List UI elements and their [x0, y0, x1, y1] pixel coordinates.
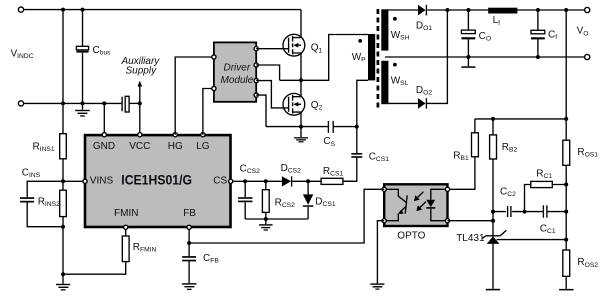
- wire CS row: [233, 180, 357, 182]
- node pin driver right4: [254, 93, 258, 97]
- node junction CS CCS1: [355, 125, 359, 129]
- wire bottom input rail: [24, 102, 122, 104]
- node output terminal plus: [585, 7, 590, 12]
- ground below Q2: [294, 127, 308, 143]
- wire DO2 cathode up: [426, 10, 447, 103]
- node junction ground left: [61, 272, 65, 276]
- node pin FMIN: [124, 225, 128, 229]
- wire WP bottom to node: [357, 80, 368, 153]
- diode DCS1: [303, 181, 313, 219]
- svg-text:GND: GND: [93, 141, 115, 152]
- node pin CS: [229, 179, 233, 183]
- transformer core: [377, 9, 380, 111]
- capacitor CS resonant: [328, 121, 333, 133]
- wire ground rail Q2 source: [266, 126, 357, 128]
- ground below Cbus: [75, 103, 90, 116]
- node junction switch node: [299, 78, 303, 82]
- svg-text:FMIN: FMIN: [114, 208, 138, 219]
- node pin VCC: [138, 133, 142, 137]
- LED opto diode: [426, 189, 445, 220]
- node pin opto top-left: [382, 187, 386, 191]
- ground below opto: [370, 283, 384, 289]
- node junction FB: [187, 241, 191, 245]
- wire TL431 ref: [497, 239, 567, 241]
- wire opto light arrows: [414, 192, 426, 211]
- wire driver pin4 to ground rail: [256, 95, 266, 127]
- resistor RINS1: [60, 10, 67, 182]
- wire sense feedback horizontal: [475, 118, 566, 120]
- transformer primary WP: [368, 34, 375, 80]
- svg-text:ICE1HS01/G: ICE1HS01/G: [121, 173, 192, 188]
- wire GND pin line: [103, 103, 105, 133]
- node junction RC1 CC1 left: [523, 210, 527, 214]
- node junction sense rail y119: [564, 117, 568, 121]
- node junction ref rail: [564, 238, 568, 242]
- resistor RCS2: [262, 181, 269, 219]
- node output terminal minus: [585, 54, 590, 59]
- svg-text:LG: LG: [196, 141, 210, 152]
- node pin GND: [102, 133, 106, 137]
- node junction aux: [138, 101, 142, 105]
- node pin driver right3: [254, 79, 258, 83]
- node input terminal bottom: [18, 101, 23, 106]
- wire HG net: [175, 57, 214, 135]
- capacitor CVCC aux series: [122, 96, 140, 112]
- node junction Cf bottom: [536, 55, 540, 59]
- ground left: [56, 274, 70, 290]
- resistor ROS1: [563, 140, 570, 165]
- wire mid output rail: [385, 56, 585, 58]
- capacitor CINS: [20, 181, 63, 226]
- wire top output rail: [388, 9, 585, 11]
- svg-text:HG: HG: [168, 141, 183, 152]
- node pin opto top-right: [445, 187, 449, 191]
- node pin LG: [201, 133, 205, 137]
- node junction sense rail top: [564, 8, 568, 12]
- node pin opto bottom-left: [382, 219, 386, 223]
- node junction RB2 top: [491, 117, 495, 121]
- wire opto cathode ground: [377, 221, 384, 284]
- node junction CCS2: [243, 179, 247, 183]
- wire top input rail: [24, 9, 301, 11]
- ground below RCS2: [259, 219, 273, 231]
- diode DO2: [418, 98, 426, 109]
- node junction bottom rail x82.5: [81, 101, 85, 105]
- svg-text:VINS: VINS: [90, 176, 114, 187]
- node junction bottom rail x104.3 GND: [102, 101, 106, 105]
- ground below ROS2: [559, 289, 573, 291]
- capacitor CCS1: [343, 153, 362, 181]
- capacitor CCS2: [238, 181, 253, 219]
- transformer secondary WSH: [381, 9, 388, 50]
- node junction DO2 top: [445, 8, 449, 12]
- opto-coupler box: [384, 184, 447, 226]
- capacitor CC1: [525, 205, 567, 218]
- node junction CC1 right: [564, 210, 568, 214]
- resistor RINS2: [60, 181, 67, 226]
- node pin driver left1: [212, 55, 216, 59]
- resistor RB2: [490, 119, 497, 236]
- node junction CC2: [491, 210, 495, 214]
- node pin HG: [173, 133, 177, 137]
- wire FB stem: [188, 229, 190, 243]
- capacitor Cbus: [76, 10, 88, 104]
- op-amp U1 ICE1HS01/G box: [85, 135, 231, 227]
- transistor opto phototransistor: [386, 189, 407, 220]
- transistor Q1: [283, 10, 305, 81]
- transistor Q2: [283, 80, 305, 126]
- node junction Q2 source: [299, 125, 303, 129]
- wire Q1 gate lead: [256, 48, 288, 50]
- svg-text:VCC: VCC: [129, 141, 150, 152]
- wire arrow to auxiliary supply: [138, 81, 143, 104]
- svg-text:FB: FB: [183, 208, 196, 219]
- wire FB net to opto: [189, 189, 384, 243]
- wire VINS to pin: [63, 180, 84, 182]
- resistor ROS2: [563, 250, 570, 276]
- node pin opto bottom-right: [445, 219, 449, 223]
- op-amp U2 Driver Module box: [214, 42, 256, 101]
- wire opto emitter to TL431: [448, 220, 494, 222]
- node pin driver right1: [254, 47, 258, 51]
- resistor RC1: [525, 181, 567, 211]
- ground below CO: [461, 57, 475, 68]
- node junction RC1 right: [564, 183, 568, 187]
- wire RFMIN return: [63, 262, 126, 275]
- node junction CS ground: [264, 217, 268, 221]
- wire WSL to DO2: [388, 102, 419, 104]
- diode DO1: [418, 5, 426, 16]
- wire LG net: [203, 89, 214, 135]
- node WSL polarity dot: [393, 63, 397, 67]
- node junction VINS: [61, 179, 65, 183]
- wire switch node to WP top: [280, 35, 368, 81]
- wire CS ground rail: [245, 218, 308, 220]
- node junction top rail x63: [61, 8, 65, 12]
- capacitor CO: [461, 10, 475, 57]
- node pin FB: [187, 225, 191, 229]
- ground below TL431: [486, 289, 500, 291]
- diode DCS2: [282, 176, 292, 186]
- node junction RINS2 bottom: [61, 225, 65, 229]
- node junction RCS2: [264, 179, 268, 183]
- wire RINS2 bottom to ground: [62, 227, 64, 275]
- node junction DCS1: [306, 179, 310, 183]
- node junction bottom rail x63: [61, 101, 65, 105]
- svg-text:Module: Module: [221, 75, 254, 86]
- ground below CFB: [182, 283, 197, 290]
- node pin VINS: [83, 179, 87, 183]
- svg-text:OPTO: OPTO: [397, 230, 425, 241]
- transformer secondary WSL: [381, 61, 388, 104]
- svg-text:Supply: Supply: [126, 66, 158, 77]
- capacitor CFB: [182, 243, 196, 283]
- node pin driver left2: [212, 86, 216, 90]
- node junction Cf top: [536, 8, 540, 12]
- wire driver pin2 to switch node: [256, 65, 279, 80]
- wire VCC pin line: [139, 103, 141, 133]
- svg-text:CS: CS: [213, 176, 227, 187]
- node WSH polarity dot: [393, 17, 397, 21]
- inductor Lf: [488, 8, 517, 14]
- capacitor CC2: [493, 206, 525, 217]
- node junction TL431 cathode: [491, 219, 495, 223]
- resistor RB1: [448, 119, 479, 189]
- capacitor Cf: [531, 10, 545, 57]
- node input terminal top: [18, 7, 23, 12]
- wire sense rail vertical: [565, 10, 567, 289]
- node WP polarity dot: [358, 39, 362, 43]
- node pin driver right2: [254, 63, 258, 67]
- node junction top rail x82.5: [81, 8, 85, 12]
- wire Q2 gate lead: [256, 81, 288, 108]
- node junction CO bottom: [466, 55, 470, 59]
- svg-text:Driver: Driver: [224, 63, 251, 74]
- TL431 shunt regulator: [482, 230, 506, 289]
- resistor RCS1: [321, 178, 343, 184]
- svg-text:TL431: TL431: [456, 233, 485, 244]
- resistor RFMIN: [122, 229, 129, 261]
- node junction CO top: [466, 8, 470, 12]
